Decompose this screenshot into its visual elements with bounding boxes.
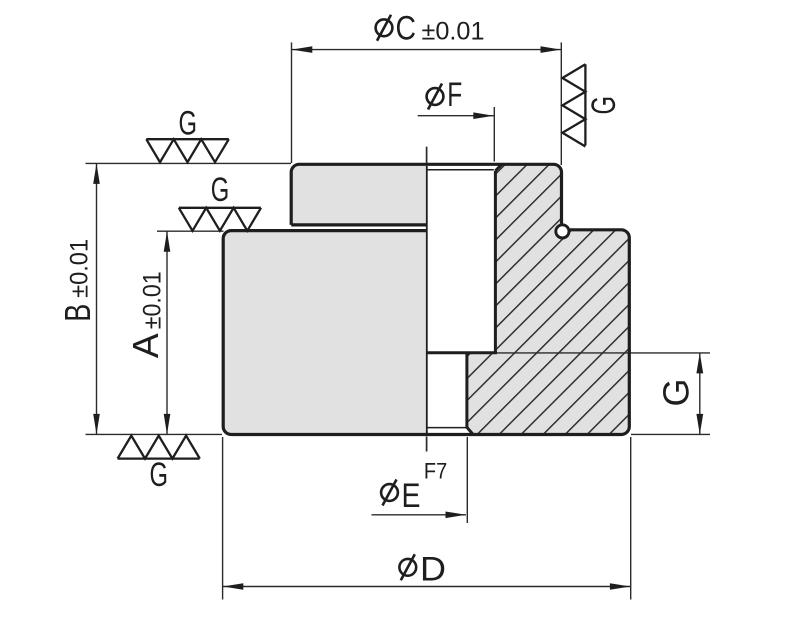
bore phiF far-side chamfer line: [428, 169, 494, 171]
flange left half gray fill: [291, 164, 427, 225]
relief notch circle: [556, 225, 569, 238]
dimension A extension line top: [157, 230, 224, 232]
arrow phiF: [473, 112, 494, 119]
bore shoulder: [427, 351, 497, 354]
flange outline: [291, 164, 561, 225]
arrow phiD left: [223, 583, 244, 590]
svg-text:B: B: [57, 304, 98, 322]
body outline: [223, 230, 629, 435]
svg-text:±0.01: ±0.01: [139, 271, 167, 329]
arrow B top: [93, 163, 100, 184]
dimension phiC extension left: [291, 42, 293, 163]
arrow phiD right: [610, 583, 631, 590]
dimension phiF line: [418, 115, 494, 117]
bore phiE wall: [465, 353, 468, 428]
svg-text:F7: F7: [424, 458, 447, 483]
body left half gray fill: [223, 231, 427, 435]
svg-text:E: E: [402, 477, 421, 515]
bore phiF top chamfer: [495, 164, 501, 170]
surface symbol G1 triangles: [146, 139, 229, 162]
dimension phiF extension: [493, 107, 495, 162]
dimension phiD extension left: [222, 437, 224, 600]
arrow phiC left: [292, 46, 313, 53]
dimension phiC extension right: [560, 42, 562, 165]
dimension phiE line: [372, 514, 467, 516]
label phiE F7: [381, 458, 447, 515]
centerline stub above part: [426, 147, 428, 164]
surface symbol G2 triangles: [179, 208, 261, 231]
dimension G extension top (shoulder line continuation): [496, 352, 711, 354]
label phiF: [427, 76, 463, 114]
dimension phiD extension right: [630, 437, 632, 600]
arrow phiE: [446, 512, 467, 519]
dimension G extension bottom: [631, 433, 710, 435]
svg-text:±0.01: ±0.01: [66, 239, 94, 298]
centerline stub below part: [426, 437, 428, 452]
label A ±0.01 (rotated): [125, 271, 167, 358]
section hatch lines: [188, 150, 798, 460]
arrow A bottom: [164, 414, 171, 435]
surface symbol G3 triangles (bottom, mirrored): [118, 436, 200, 459]
arrow G top: [696, 353, 703, 374]
dimension B extension line top: [86, 162, 292, 164]
section hatch area fill: [467, 164, 629, 434]
svg-text:±0.01: ±0.01: [422, 17, 485, 45]
dimension phiC line: [292, 49, 562, 51]
label phiD: [399, 551, 446, 589]
dimension B line: [96, 163, 98, 434]
arrow phiC right: [541, 46, 562, 53]
svg-text:G: G: [150, 456, 169, 494]
bore phiF wall: [494, 171, 497, 353]
centerline inside part: [426, 166, 428, 434]
dimension A line: [166, 231, 168, 434]
dimension phiE extension: [466, 437, 468, 523]
arrow B bottom: [93, 414, 100, 435]
bore phiE far-side chamfer line: [427, 427, 467, 429]
dimension A/B extension line bottom: [86, 433, 223, 435]
svg-text:G: G: [211, 171, 230, 209]
bore phiE bottom chamfer: [467, 427, 473, 434]
svg-text:F: F: [447, 76, 462, 114]
arrow A top: [164, 231, 171, 252]
label B ±0.01 (rotated): [57, 239, 98, 322]
surface symbol G4 triangles (right, rotated): [562, 64, 585, 146]
svg-text:A: A: [125, 333, 166, 358]
svg-text:G: G: [656, 379, 697, 407]
arrow G bottom: [696, 414, 703, 435]
flange bottom edge: [291, 223, 427, 226]
dimension phiD line: [223, 586, 631, 588]
label phiC: [376, 10, 485, 48]
svg-text:D: D: [420, 551, 446, 589]
dimension G line: [699, 353, 701, 435]
svg-text:G: G: [178, 105, 197, 143]
svg-text:C: C: [396, 10, 417, 48]
svg-text:G: G: [585, 96, 623, 115]
